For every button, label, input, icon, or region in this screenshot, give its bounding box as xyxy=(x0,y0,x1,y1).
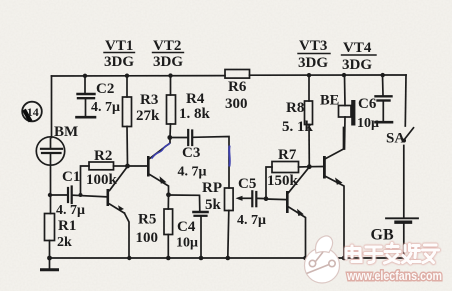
node VT3 emitter ground junction xyxy=(303,256,308,261)
svg-text:R7: R7 xyxy=(278,147,297,163)
wire bottom ground rail xyxy=(50,257,406,259)
capacitor C5 xyxy=(252,191,266,206)
svg-text:5k: 5k xyxy=(205,197,222,213)
ground xyxy=(42,258,58,270)
transistor VT4 xyxy=(323,128,344,259)
transistor VT3 xyxy=(286,167,309,258)
wire BM down to C1 node xyxy=(50,165,52,213)
svg-text:RP: RP xyxy=(202,180,222,196)
node RP ground junction xyxy=(226,256,231,261)
node C1 junction xyxy=(48,193,52,197)
capacitor C3 xyxy=(170,130,229,188)
svg-text:C4: C4 xyxy=(177,219,196,235)
svg-text:4. 7μ: 4. 7μ xyxy=(178,165,207,180)
node C6 rail junction xyxy=(381,73,385,77)
svg-text:R8: R8 xyxy=(286,100,304,116)
stamp circle 14 xyxy=(22,102,42,122)
svg-text:C6: C6 xyxy=(358,96,377,112)
switch SA xyxy=(402,128,414,218)
potentiometer RP xyxy=(225,188,252,258)
transistor VT2 xyxy=(147,138,170,195)
wire VT2 emitter to R5 and C4 xyxy=(169,195,200,211)
svg-text:R1: R1 xyxy=(58,218,76,234)
underline VT1 xyxy=(104,52,135,54)
svg-text:10μ: 10μ xyxy=(357,116,379,131)
capacitor C1 xyxy=(50,187,107,204)
svg-text:VT2: VT2 xyxy=(153,38,181,54)
svg-text:10μ: 10μ xyxy=(176,236,198,251)
node BE rail junction xyxy=(342,73,346,77)
svg-text:SA: SA xyxy=(386,131,405,147)
underline VT4 xyxy=(342,54,377,56)
svg-text:300: 300 xyxy=(225,96,248,112)
svg-text:R5: R5 xyxy=(138,212,156,228)
node R5 ground junction xyxy=(166,256,171,261)
capacitor C4 xyxy=(194,212,208,258)
svg-text:2k: 2k xyxy=(57,235,72,250)
svg-text:1. 8k: 1. 8k xyxy=(179,106,211,122)
svg-text:R4: R4 xyxy=(186,91,205,107)
svg-text:3DG: 3DG xyxy=(153,54,183,70)
svg-text:C5: C5 xyxy=(238,176,256,192)
node C2 rail junction xyxy=(83,74,87,78)
wire VT1 collector to VT2 base xyxy=(128,165,148,167)
wire C5 node to VT3 base xyxy=(266,198,286,201)
node VT2 emitter junction xyxy=(166,192,171,197)
svg-text:27k: 27k xyxy=(136,108,160,124)
node R8 rail junction xyxy=(307,73,311,77)
resistor R7 xyxy=(266,162,309,199)
svg-text:4. 7μ: 4. 7μ xyxy=(237,213,266,228)
svg-text:3DG: 3DG xyxy=(298,55,328,71)
svg-text:C1: C1 xyxy=(62,169,80,185)
node C4 ground junction xyxy=(199,256,204,261)
resistor R5 xyxy=(164,195,173,258)
svg-text:3DG: 3DG xyxy=(104,54,134,70)
svg-text:VT1: VT1 xyxy=(105,38,133,54)
node R1 ground junction xyxy=(47,256,52,261)
node R2 left junction xyxy=(79,193,83,197)
microphone BM xyxy=(36,137,64,165)
resistor R4 xyxy=(167,76,176,138)
svg-text:4. 7μ: 4. 7μ xyxy=(56,203,85,218)
svg-text:R2: R2 xyxy=(94,148,112,164)
resistor R8 xyxy=(305,76,313,167)
svg-text:R3: R3 xyxy=(140,92,158,108)
earphone BE xyxy=(339,76,356,150)
capacitor C2 xyxy=(77,76,96,117)
svg-text:BE: BE xyxy=(320,93,339,109)
node VT1 collector junction xyxy=(125,164,130,169)
resistor R2 xyxy=(81,162,128,195)
svg-text:3DG: 3DG xyxy=(342,57,372,73)
node VT3 base junction xyxy=(264,196,269,201)
svg-text:100: 100 xyxy=(136,230,159,246)
wire top supply rail right section xyxy=(250,74,407,76)
resistor R1 xyxy=(45,214,55,259)
svg-text:R6: R6 xyxy=(228,79,247,95)
battery GB xyxy=(386,218,418,258)
resistor R6 in supply rail xyxy=(225,70,250,79)
svg-text:5. 1k: 5. 1k xyxy=(282,119,314,135)
node supply left corner / wire down to BM xyxy=(51,76,53,138)
svg-text:VT4: VT4 xyxy=(343,40,372,56)
svg-text:C3: C3 xyxy=(182,145,200,161)
svg-text:C2: C2 xyxy=(96,81,114,97)
node R4 rail junction xyxy=(168,73,172,77)
svg-text:GB: GB xyxy=(371,227,394,244)
node VT4 emitter ground junction xyxy=(342,256,347,261)
blue ink mark on VT2 collector xyxy=(152,144,170,159)
wire VT3 collector to VT4 base xyxy=(309,166,323,168)
watermark logo circle xyxy=(305,236,340,283)
resistor R3 xyxy=(123,76,132,166)
capacitor C6 xyxy=(376,75,393,122)
underline VT3 xyxy=(298,53,330,55)
svg-text:14: 14 xyxy=(27,105,39,119)
watermark text dianzifashaoyou xyxy=(346,244,439,264)
node VT1 emitter ground junction xyxy=(127,256,131,260)
node VT2 collector junction xyxy=(167,135,172,140)
wire top supply rail left section xyxy=(52,75,226,77)
svg-text:BM: BM xyxy=(54,124,78,140)
node R3 rail junction xyxy=(125,74,129,78)
svg-text:4. 7μ: 4. 7μ xyxy=(91,100,120,115)
svg-text:www.elecfans.com: www.elecfans.com xyxy=(346,269,442,283)
transistor VT1 xyxy=(107,167,130,259)
node VT3 collector junction xyxy=(307,164,312,169)
underline VT2 xyxy=(153,52,184,54)
svg-text:VT3: VT3 xyxy=(299,38,327,54)
blue ink mark on RP wire xyxy=(228,147,231,166)
wire right edge from rail down to switch xyxy=(404,75,407,126)
